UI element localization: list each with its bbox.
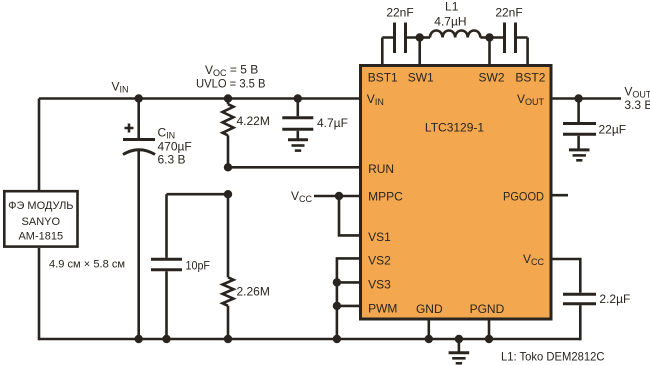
svg-text:CIN: CIN [158, 125, 176, 140]
wire VIN top rail [39, 97, 362, 100]
wire VOUT [551, 97, 621, 100]
ground symbol 22uF [569, 150, 590, 160]
node VS3 junction [333, 278, 341, 286]
svg-text:4.9 см × 5.8 см: 4.9 см × 5.8 см [49, 259, 125, 271]
ground symbol 4.7uF [288, 140, 308, 151]
inductor L1 4.7uH [420, 0, 490, 38]
node PGND junction [485, 335, 493, 343]
node MPPC junction [335, 192, 343, 200]
node 4.7uF junction [294, 94, 302, 102]
wire VS3 [337, 281, 362, 284]
svg-text:UVLO = 3.5 В: UVLO = 3.5 В [196, 76, 266, 90]
svg-text:LTC3129-1: LTC3129-1 [425, 120, 484, 134]
wire MPPC [314, 195, 362, 198]
svg-text:SW2: SW2 [479, 70, 505, 84]
PV module box SANYO AM-1815 [4, 191, 77, 246]
svg-text:AM-1815: AM-1815 [18, 231, 63, 243]
resistor R1 4.22M [223, 99, 270, 168]
svg-text:2.26M: 2.26M [237, 285, 270, 299]
svg-text:MPPC: MPPC [368, 189, 403, 203]
wire PV module bottom to ground rail [38, 248, 41, 340]
ground symbol main [449, 339, 470, 363]
wire MPPC to VS1 [339, 196, 362, 235]
svg-text:VS1: VS1 [368, 230, 391, 244]
svg-text:22nF: 22nF [495, 6, 522, 20]
svg-text:3.3 В: 3.3 В [624, 98, 650, 112]
capacitor C1 22nF left [382, 6, 419, 54]
node CIN ground junction [135, 335, 143, 343]
svg-text:VS3: VS3 [368, 278, 391, 292]
node 2.26M ground junction [224, 335, 232, 343]
capacitor C3 4.7uF [282, 99, 348, 139]
wire PWM [337, 305, 362, 308]
svg-text:PGOOD: PGOOD [503, 189, 544, 203]
svg-text:BST2: BST2 [515, 70, 545, 84]
svg-text:VIN: VIN [112, 80, 129, 95]
node main ground junction [455, 335, 463, 343]
wire GND stub [427, 319, 430, 339]
svg-text:PWM: PWM [368, 302, 397, 316]
wire ground bottom rail [39, 338, 580, 341]
wire PGOOD stub [551, 194, 568, 197]
resistor R2 2.26M [223, 194, 270, 339]
wire VCC to 2.2uF [551, 259, 580, 293]
node GND junction [425, 335, 433, 343]
wire PGND stub [488, 319, 491, 339]
svg-text:22nF: 22nF [386, 6, 413, 20]
node VS ground junction [333, 335, 341, 343]
IC U1 LTC3129-1 body [361, 66, 552, 320]
svg-text:L1: Toko DEM2812C: L1: Toko DEM2812C [501, 350, 605, 364]
node VIN/CIN junction [135, 94, 143, 102]
svg-text:10pF: 10pF [186, 258, 211, 272]
wire VS2 bracket [337, 258, 362, 339]
capacitor C2 22nF right [490, 6, 528, 54]
node PWM junction [333, 302, 341, 310]
node SW1 junction [416, 33, 424, 41]
svg-text:4.7µF: 4.7µF [317, 116, 348, 130]
svg-text:22µF: 22µF [599, 122, 627, 136]
svg-text:2.2µF: 2.2µF [599, 292, 630, 306]
svg-text:GND: GND [416, 302, 443, 316]
wire 10pF feed [167, 193, 229, 196]
wire SW2 stub [488, 38, 491, 67]
node SW2 junction [485, 33, 493, 41]
svg-text:SW1: SW1 [408, 70, 434, 84]
node RUN junction [224, 163, 232, 171]
svg-text:PGND: PGND [470, 302, 505, 316]
svg-text:4.22M: 4.22M [237, 114, 270, 128]
svg-text:BST1: BST1 [368, 70, 398, 84]
wire RUN [228, 166, 362, 169]
svg-text:470µF: 470µF [158, 139, 192, 153]
capacitor C5 22uF [563, 99, 626, 149]
wire BST2 stub [526, 38, 529, 67]
svg-text:L1: L1 [445, 0, 459, 13]
svg-text:VS2: VS2 [368, 254, 391, 268]
capacitor C4 10pF [151, 194, 210, 339]
svg-text:SANYO: SANYO [22, 216, 61, 228]
svg-text:4.7µH: 4.7µH [434, 15, 466, 29]
wire BST1 stub [381, 38, 384, 67]
capacitor C6 2.2uF [563, 292, 630, 340]
node divider mid junction [224, 190, 232, 198]
svg-text:ФЭ МОДУЛЬ: ФЭ МОДУЛЬ [8, 200, 73, 212]
svg-text:VCC: VCC [291, 189, 313, 204]
node 10pF ground junction [162, 335, 170, 343]
node VOUT junction [574, 94, 582, 102]
svg-text:RUN: RUN [368, 162, 394, 176]
wire left vertical to PV module [38, 99, 41, 191]
node 4.22M top junction [224, 94, 232, 102]
wire SW1 stub [418, 38, 421, 67]
svg-text:6.3 В: 6.3 В [158, 153, 186, 167]
capacitor CIN 470uF polarized [123, 99, 192, 340]
